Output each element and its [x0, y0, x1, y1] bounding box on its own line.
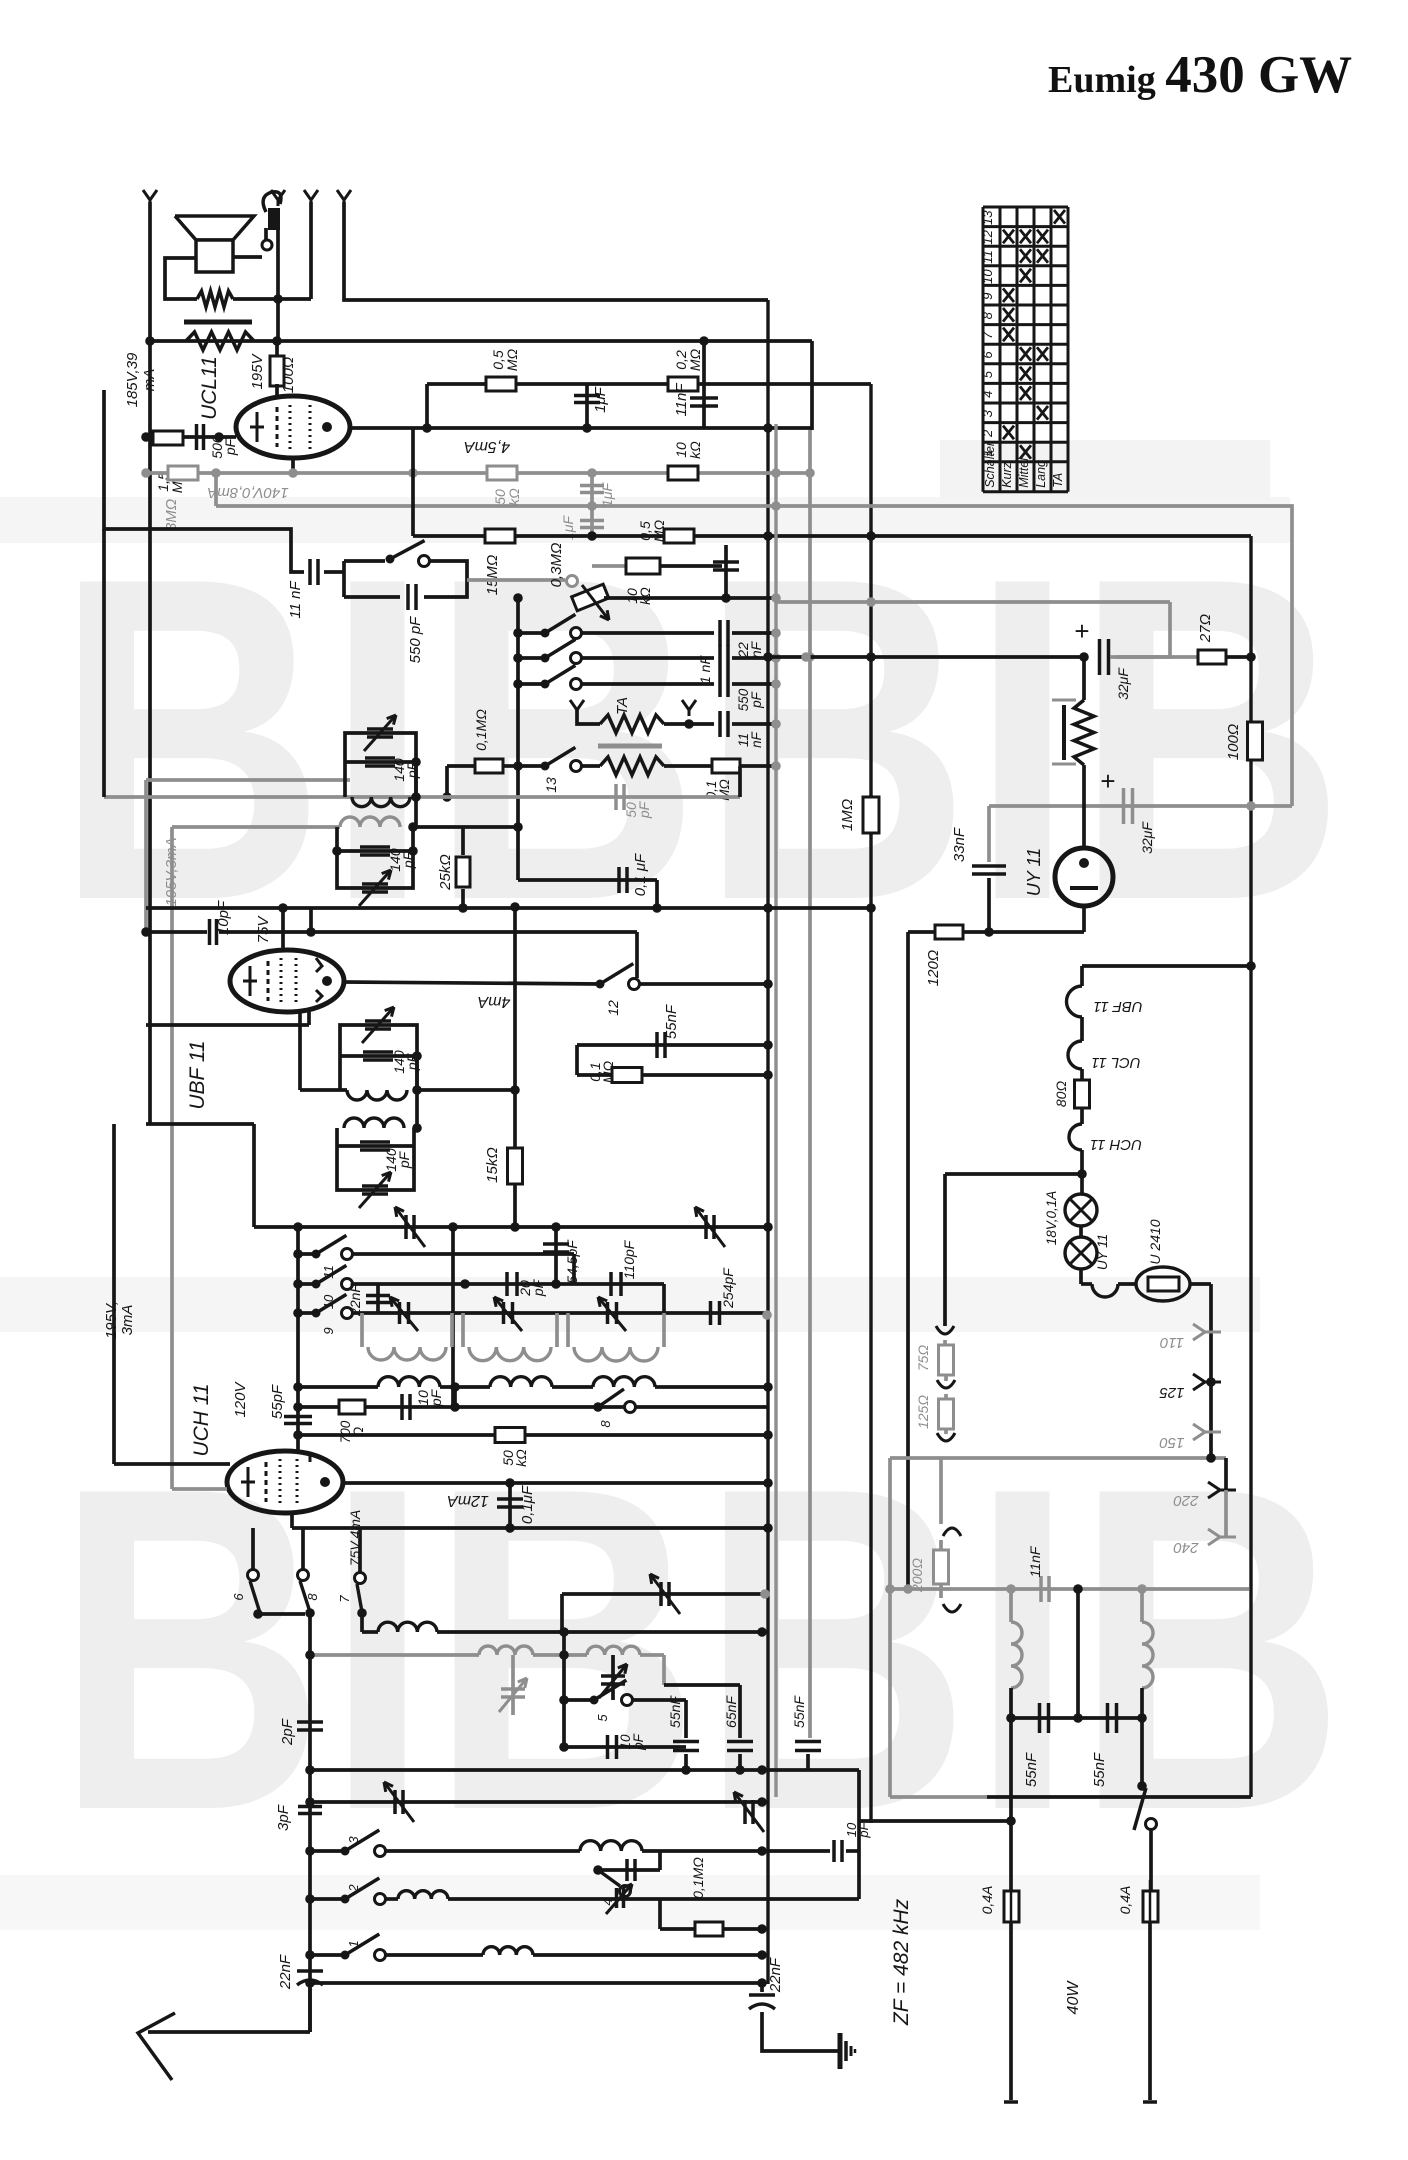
svg-text:UY 11: UY 11 [1024, 848, 1044, 896]
svg-text:5: 5 [595, 1714, 610, 1722]
svg-text:10kΩ: 10kΩ [624, 587, 653, 605]
svg-text:20pF: 20pF [517, 1278, 546, 1297]
svg-text:9: 9 [980, 293, 995, 300]
terminal T2 [271, 190, 285, 200]
wire heater tap to selector [945, 1172, 1082, 1176]
terminal paren 5 [939, 1584, 943, 1598]
svg-text:55nF: 55nF [1023, 1752, 1040, 1787]
svg-text:+: + [1100, 766, 1115, 796]
svg-text:1 nF: 1 nF [697, 655, 713, 684]
capacitor 1uF [585, 384, 589, 428]
capacitor 11nF top [702, 341, 706, 428]
svg-text:12: 12 [980, 229, 995, 244]
switch 10 [298, 1282, 316, 1286]
capacitor 10pF [146, 930, 207, 934]
potentiometer 0,3MOhm [567, 576, 578, 587]
capacitor 550pF row684 [718, 671, 722, 697]
wire T4 to top bus [344, 202, 768, 300]
wire gray feed y=780 [146, 778, 350, 782]
svg-text:33nF: 33nF [951, 827, 968, 862]
wire riser x=453 [451, 1227, 455, 1407]
wire 55nF line y=1045 [577, 1043, 768, 1047]
wire row y=1770 [310, 1768, 859, 1772]
wire Q1M right leg [738, 766, 742, 797]
switch 8v [298, 1570, 309, 1581]
resistor TA [577, 710, 600, 724]
wire loop right side [424, 561, 467, 597]
lamp 18V 0,1A [1065, 1194, 1097, 1226]
svg-text:12: 12 [605, 1000, 621, 1016]
svg-text:11nF: 11nF [673, 383, 690, 417]
svg-text:22nF: 22nF [735, 640, 764, 658]
wire line y=1528 [292, 1526, 768, 1530]
svg-text:54,5pF: 54,5pF [564, 1239, 580, 1284]
svg-text:550 pF: 550 pF [407, 616, 424, 664]
wire 0,1M line y=1075 [577, 1073, 768, 1077]
wire row y=1802 [310, 1800, 762, 1804]
switch 7 [355, 1573, 366, 1584]
svg-text:13: 13 [980, 210, 995, 225]
wire gray bus y=506 [216, 504, 871, 508]
svg-text:Mittel: Mittel [1017, 457, 1031, 488]
lamp UY11 scale [1079, 1226, 1083, 1237]
svg-text:10pF: 10pF [618, 1733, 646, 1751]
wire vertical x=871 [869, 384, 872, 1823]
capacitor 22nF antenna right [760, 1983, 764, 1992]
wire bus y=1227 [254, 1225, 768, 1229]
svg-text:120V: 120V [232, 1380, 249, 1417]
switch 13 row 766 [518, 764, 545, 768]
svg-text:50pF: 50pF [623, 800, 652, 819]
svg-text:75V: 75V [255, 915, 272, 944]
svg-text:15MΩ: 15MΩ [484, 555, 501, 596]
svg-text:140V,0,8mA: 140V,0,8mA [207, 484, 288, 501]
varcap loop 1594 [560, 1594, 564, 1632]
svg-text:UCL11: UCL11 [198, 356, 221, 420]
svg-text:0,1MΩ: 0,1MΩ [587, 1060, 616, 1083]
coil row1899 [386, 1897, 398, 1901]
switch bank row 684 [518, 682, 545, 686]
svg-text:100Ω: 100Ω [280, 357, 297, 393]
svg-text:22nF: 22nF [277, 1954, 294, 1990]
terminal paren 4 [939, 1458, 943, 1516]
svg-text:0,1MΩ: 0,1MΩ [473, 709, 489, 751]
wire pot to 10k [592, 564, 626, 568]
wire speaker to switch circle [233, 255, 262, 259]
svg-text:65nF: 65nF [723, 1695, 739, 1728]
tap 220 [1224, 1458, 1228, 1490]
switch 6 [248, 1570, 259, 1581]
svg-text:UBF 11: UBF 11 [1093, 998, 1142, 1015]
svg-text:11: 11 [980, 250, 995, 264]
svg-text:100Ω: 100Ω [1225, 724, 1242, 760]
wire riser x=413 [411, 428, 415, 536]
resistor speaker secondary [197, 291, 233, 307]
resistor 125 Ohm [944, 1394, 948, 1400]
tuned circuit G1 [360, 1313, 364, 1347]
resistor 05MOhm bus536 [664, 529, 694, 543]
svg-text:3: 3 [346, 1836, 361, 1844]
svg-text:2: 2 [346, 1884, 361, 1893]
resistor 700 Ohm [298, 1405, 339, 1409]
capacitor 55nF osc [684, 1700, 688, 1738]
label 1MOhm right [869, 795, 873, 835]
heater dropper resistor [1082, 657, 1086, 700]
svg-text:UCL 11: UCL 11 [1091, 1054, 1140, 1071]
svg-text:0,5MΩ: 0,5MΩ [637, 519, 667, 542]
svg-text:27Ω: 27Ω [1197, 614, 1214, 643]
wire UBF anode2 down [298, 1012, 302, 1090]
output transformer core bar [184, 320, 252, 325]
antenna arrow [138, 2013, 175, 2080]
svg-text:40W: 40W [1065, 1980, 1082, 2015]
capacitor 50pF [614, 784, 618, 810]
capacitor 1uF gray upper [590, 473, 594, 506]
svg-text:140pF: 140pF [383, 1148, 412, 1172]
wire gray riser to table x=1292 [871, 506, 1292, 806]
svg-text:11nF: 11nF [736, 731, 764, 748]
svg-text:+: + [1074, 616, 1089, 646]
svg-text:1MΩ: 1MΩ [839, 799, 856, 831]
resistor row766 [582, 764, 600, 768]
varcap row1802 left [393, 1790, 397, 1814]
svg-text:55nF: 55nF [1091, 1752, 1108, 1787]
wire y=932 with 120 Ohm [908, 930, 989, 934]
wire sw7 down [360, 1613, 364, 1632]
coil row lower 1 [378, 1377, 440, 1387]
capacitor 1nF row658 [718, 645, 722, 671]
wire anode line 4,5mA [350, 426, 812, 430]
svg-text:0,4A: 0,4A [979, 1886, 995, 1915]
IF1 lower varcap [362, 882, 388, 886]
svg-text:2: 2 [980, 429, 995, 438]
svg-text:UCH 11: UCH 11 [190, 1383, 213, 1456]
IF2 lower box [337, 1128, 414, 1190]
svg-text:195V: 195V [249, 352, 266, 389]
svg-text:32μF: 32μF [1139, 821, 1155, 854]
wire grid line [146, 435, 236, 439]
wire UBF plate line 4mA [344, 982, 600, 984]
switch 11 [298, 1252, 316, 1256]
resistor 0,2MOhm [668, 377, 698, 391]
terminal T3 [304, 190, 318, 200]
capacitor 550pF [406, 584, 410, 610]
wire gray bus y=473 [146, 471, 812, 475]
resistor 120 Ohm [935, 925, 963, 939]
node top bus corner [766, 300, 769, 1984]
heater chain box [1082, 964, 1251, 968]
svg-text:Lang: Lang [1034, 460, 1048, 488]
wire to lamps [1080, 1150, 1084, 1194]
capacitor 32uF electrolytic 1 [1098, 639, 1102, 675]
resistor 200 Ohm [934, 1550, 949, 1584]
tube UCL11 [236, 396, 350, 458]
svg-text:0,1μF: 0,1μF [519, 1485, 536, 1524]
capacitor 22nF antenna left [297, 1969, 323, 1973]
switch 3 row1851 [310, 1849, 345, 1853]
svg-text:195V,3mA: 195V,3mA [163, 838, 180, 907]
varcap row1802 right [743, 1800, 747, 1824]
wire mains lead right bottom [1148, 1922, 1152, 2100]
wire switch8 vertical [308, 1613, 312, 2032]
switch top of loop [386, 555, 395, 564]
svg-text:2pF: 2pF [279, 1718, 296, 1746]
svg-text:55nF: 55nF [791, 1695, 807, 1728]
wire IF1 link [414, 762, 418, 827]
capacitor 55nF mains right [1106, 1703, 1110, 1733]
svg-text:220: 220 [1173, 1492, 1200, 1509]
wire row y=1983 [310, 1981, 762, 1985]
wire x=114 drop [112, 1124, 116, 1464]
wire UBF plate riser [281, 908, 285, 951]
capacitor 33nF [987, 806, 991, 862]
wire left loop to bus1194 [146, 1122, 254, 1126]
wire bus y=826 black [413, 825, 518, 829]
switch 2 row1899 [310, 1897, 345, 1901]
svg-text:0,5MΩ: 0,5MΩ [490, 348, 520, 371]
resistor 0,1MOhm bottom [660, 1927, 696, 1931]
speaker LS [175, 216, 254, 240]
capacitor 55nF mains left [1011, 1716, 1142, 1720]
wire bus y=908 [146, 906, 768, 910]
wire x=447 drop [445, 766, 449, 797]
switch mains [1140, 1718, 1144, 1786]
wire right bus x=1251 [1249, 536, 1252, 966]
capacitor 11nF mains [1039, 1576, 1043, 1602]
svg-text:15kΩ: 15kΩ [484, 1147, 501, 1183]
terminal paren 2 [944, 1375, 948, 1381]
svg-text:4,5mA: 4,5mA [464, 438, 510, 455]
coil row1955 [386, 1953, 483, 1957]
wire bus y=384 [427, 382, 871, 386]
svg-text:0,3MΩ: 0,3MΩ [548, 543, 565, 588]
svg-text:125Ω: 125Ω [915, 1395, 931, 1429]
tube UCH11 [227, 1451, 343, 1513]
svg-text:8: 8 [598, 1420, 613, 1428]
IF2 lower coil [344, 1118, 404, 1128]
svg-text:10kΩ: 10kΩ [673, 441, 703, 459]
resistor 25kOhm [461, 827, 465, 855]
svg-text:3: 3 [980, 409, 995, 417]
svg-text:185V,39mA: 185V,39mA [124, 352, 158, 407]
svg-text:25kΩ: 25kΩ [437, 854, 454, 891]
svg-text:0,1 μF: 0,1 μF [632, 853, 649, 896]
wire riser x=859 [857, 1770, 861, 1899]
capacitor 20pF [505, 1272, 509, 1296]
svg-text:TA: TA [1051, 473, 1065, 488]
svg-text:150: 150 [1159, 1434, 1185, 1451]
svg-text:4: 4 [980, 391, 995, 398]
wire center drop x=1078 [1076, 1589, 1080, 1718]
capacitor 254pF [709, 1301, 713, 1325]
svg-text:125: 125 [1159, 1384, 1185, 1401]
switch 9 [298, 1311, 316, 1315]
capacitor 0,1uF [508, 1483, 512, 1528]
wire 13-row to left [447, 764, 475, 768]
wire bottom bus y=1797 [890, 1795, 987, 1799]
svg-text:22nF: 22nF [767, 1957, 784, 1993]
terminal paren 3 [944, 1429, 948, 1434]
resistor 10kOhm [668, 466, 698, 480]
capacitor 3pF [298, 1805, 322, 1809]
svg-text:4mA: 4mA [478, 993, 511, 1010]
capacitor 11nF row724 [718, 711, 722, 737]
IF1 upper box [345, 733, 416, 797]
switch 4 cluster [598, 1868, 660, 1872]
resistor 27 Ohm [1198, 650, 1226, 664]
wire riser x=455 [453, 1387, 457, 1407]
wire switch to fuse [1149, 1830, 1153, 1891]
svg-text:120Ω: 120Ω [925, 950, 942, 986]
coil row1851 [386, 1849, 580, 1853]
svg-text:254pF: 254pF [720, 1267, 736, 1309]
capacitor 10pF osc2 [564, 1745, 686, 1749]
tap 150 [1193, 1424, 1205, 1440]
barretter U2410 [1136, 1267, 1190, 1301]
wire [233, 297, 311, 301]
svg-text:TA: TA [614, 697, 631, 715]
wire sw7 feed [358, 1528, 362, 1573]
tap 240 [1224, 1490, 1228, 1537]
svg-text:12mA: 12mA [447, 1492, 489, 1509]
wire 10pF feed to sw12 [309, 908, 313, 932]
svg-text:Eumig 430 GW: Eumig 430 GW [1048, 46, 1352, 104]
capacitor 54,5pF [554, 1227, 558, 1284]
resistor 0,5MOhm [486, 377, 516, 391]
svg-text:10pF: 10pF [215, 900, 232, 935]
svg-text:55nF: 55nF [663, 1004, 680, 1039]
wire to ground [762, 2012, 838, 2051]
wire gray box top y=1458 [890, 1456, 1226, 1460]
wire gray bus x=776 [774, 424, 777, 1797]
wire riser x=515 [513, 907, 517, 1227]
resistor 50kOhm gray [487, 466, 517, 480]
capacitor 55nF right [808, 985, 812, 1738]
resistor 15kOhm [508, 1148, 523, 1184]
wire gray bus y=602 [776, 600, 1170, 604]
capacitor 0,1uF [617, 867, 621, 893]
capacitor 55pF [298, 1385, 356, 1389]
tap 125 [1206, 1377, 1216, 1387]
svg-text:Schalter: Schalter [983, 441, 997, 488]
filament UCL11 [1080, 1017, 1084, 1041]
coil osc black [378, 1622, 437, 1632]
resistor 75 Ohm [943, 1340, 947, 1346]
wire UY11 bottom [1082, 906, 1086, 932]
capacitor 22nF band [376, 1284, 380, 1313]
wire coil out [417, 1088, 515, 1092]
capacitor 22nF grid [724, 545, 728, 598]
svg-text:10pF: 10pF [415, 1388, 444, 1407]
svg-text:1μF: 1μF [592, 386, 609, 413]
wire switch feed x=298 [296, 1227, 300, 1452]
capacitor 2pF [297, 1720, 323, 1724]
svg-text:50kΩ: 50kΩ [492, 488, 522, 506]
capacitor 10pF row1851 ext [762, 1849, 830, 1853]
switch 1 row1955 [310, 1953, 345, 1957]
wire row 1284 [353, 1282, 664, 1286]
filament UCH11 [1080, 1108, 1084, 1124]
wire after sw12 [640, 982, 768, 986]
wire to volume pot [467, 578, 565, 582]
wire gray vertical x=810 [808, 430, 812, 985]
wire mains lead left bottom [1009, 1922, 1013, 2100]
terminal TA right [682, 700, 696, 710]
resistor 0,1MOhm right [712, 759, 740, 773]
wire vertical x=812 [810, 341, 814, 430]
svg-text:18V,0,1A: 18V,0,1A [1044, 1191, 1059, 1246]
wire x=908 drop [906, 932, 910, 1589]
svg-text:6: 6 [231, 1593, 246, 1601]
switch 8 [593, 1402, 603, 1412]
capacitor 1uF gray lower [590, 506, 594, 536]
resistor 100 Ohm [1248, 722, 1263, 760]
wire T3 vertical [309, 202, 313, 299]
wire cathode [291, 458, 295, 473]
wire T2 vertical [276, 230, 280, 341]
svg-text:0,2MΩ: 0,2MΩ [673, 348, 703, 371]
IF2 capacitor 140pF [340, 1054, 417, 1058]
wire sw8v feed [301, 1528, 305, 1570]
resistor 100ohm [275, 341, 279, 358]
capacitor 22nF row633 [718, 620, 722, 646]
svg-text:80Ω: 80Ω [1053, 1081, 1069, 1108]
svg-text:8: 8 [305, 1593, 320, 1601]
resistor 50kOhm [495, 1428, 525, 1443]
choke right [1140, 1589, 1144, 1622]
tap 110 [1193, 1324, 1205, 1340]
gray coil pair left [479, 1646, 533, 1655]
wire y=1821 to mains [859, 1819, 1011, 1823]
resistor 10kOhm box [626, 558, 660, 574]
svg-text:UBF 11: UBF 11 [186, 1040, 209, 1109]
varcap below pair right [611, 1655, 615, 1700]
capacitor 11nF volume [308, 559, 312, 585]
svg-text:1μF: 1μF [599, 482, 615, 507]
switch table Schalter 1-13 Kurz/Mittel/Lang/TA [982, 207, 985, 492]
choke left [1009, 1589, 1013, 1622]
wire IF2 link [415, 1056, 419, 1128]
svg-text:10: 10 [980, 269, 995, 284]
IF2 lower capacitor 140pF [337, 1144, 414, 1148]
capacitor 110pF [609, 1272, 613, 1296]
wire row 1313 G-box tops [353, 1311, 768, 1315]
terminal T4 [337, 190, 351, 200]
TA pickup bar [598, 744, 662, 749]
wire 0,1uF line y=880 [518, 878, 657, 882]
wire 10k to cap [660, 564, 722, 568]
svg-text:7: 7 [337, 1595, 352, 1603]
coil row lower 2 [440, 1385, 490, 1389]
svg-text:0,1MΩ: 0,1MΩ [690, 1857, 706, 1899]
svg-text:UY 11: UY 11 [1095, 1234, 1110, 1270]
wire UCH plate line 12mA [343, 1481, 768, 1485]
IF1 coil upper [352, 797, 410, 807]
svg-text:1: 1 [346, 1940, 361, 1947]
IF2 varcap top [365, 1019, 391, 1023]
svg-text:110pF: 110pF [621, 1239, 637, 1279]
scan shading bands (decorative) [0, 497, 1290, 543]
ground [838, 2033, 843, 2069]
svg-text:55nF: 55nF [667, 1695, 683, 1728]
svg-text:Kurz: Kurz [1000, 461, 1014, 487]
wire mains left lead [1009, 1718, 1013, 1891]
varcap below pair left gray [511, 1655, 515, 1715]
coil row lower 3 [552, 1385, 593, 1389]
wire bus y=341 [150, 339, 812, 343]
wire sw6 feed [251, 1528, 255, 1570]
wire 0,1M left leg [658, 1899, 662, 1929]
